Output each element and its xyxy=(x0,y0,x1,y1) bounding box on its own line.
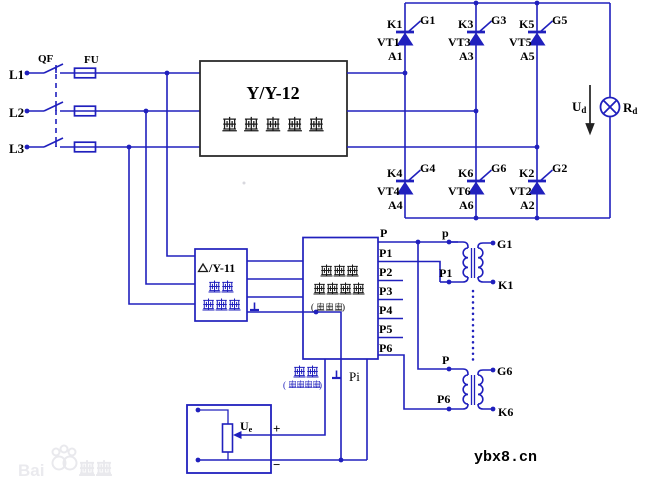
wire bridge top rail xyxy=(405,2,610,4)
svg-text:A3: A3 xyxy=(459,49,474,63)
svg-text:G2: G2 xyxy=(552,161,567,175)
wire bridge leg 3 xyxy=(536,3,538,218)
svg-text:(: ( xyxy=(283,380,286,390)
svg-text:(: ( xyxy=(311,302,314,312)
thyristor VT1 xyxy=(396,21,421,46)
svg-text:p: p xyxy=(442,226,449,240)
node tap3 xyxy=(127,145,132,150)
wire phase a to bridge xyxy=(347,72,405,74)
svg-text:VT5: VT5 xyxy=(509,35,532,49)
svg-text:K5: K5 xyxy=(519,17,534,31)
node P1 bottom TP1 xyxy=(447,280,452,285)
wire Pi vertical xyxy=(366,359,368,460)
svg-text:): ) xyxy=(342,302,345,312)
svg-text:G6: G6 xyxy=(497,364,512,378)
svg-text:): ) xyxy=(319,380,322,390)
wire stub P5 xyxy=(378,337,403,339)
wire sync out 1 xyxy=(247,260,303,262)
svg-text:K1: K1 xyxy=(387,17,402,31)
node P6 bottom TP6 xyxy=(447,407,452,412)
wire pot bottom xyxy=(227,452,229,460)
svg-text:VT6: VT6 xyxy=(448,184,471,198)
breaker QF pole 3 xyxy=(44,138,63,147)
node bottom rail leg2 xyxy=(474,216,479,221)
svg-text:−: − xyxy=(273,457,280,472)
svg-text:G4: G4 xyxy=(420,161,435,175)
svg-text:A6: A6 xyxy=(459,198,474,212)
node phase c xyxy=(535,145,540,150)
wire stub P6 xyxy=(378,355,449,409)
fuse FU1 xyxy=(75,68,96,78)
label sync hanzi xyxy=(209,281,233,292)
node P link top xyxy=(416,240,421,245)
svg-text:FU: FU xyxy=(84,54,99,66)
svg-text:+: + xyxy=(273,421,280,436)
node top rail leg2 xyxy=(474,1,479,6)
svg-text:P3: P3 xyxy=(379,284,392,298)
wire stub P3 xyxy=(378,299,403,301)
svg-text:G6: G6 xyxy=(491,161,506,175)
wire bridge leg 1 xyxy=(404,3,406,218)
label control voltage hanzi xyxy=(283,380,322,390)
wire load right rail xyxy=(609,3,611,218)
label double pulse hanzi xyxy=(321,265,358,276)
svg-text:K2: K2 xyxy=(519,166,534,180)
node minus gnd junction xyxy=(339,458,344,463)
svg-text:ybx8.cn: ybx8.cn xyxy=(474,449,537,466)
wire P1 feed bottom xyxy=(440,281,449,283)
wire sync tap 1 xyxy=(167,73,195,256)
node G6 terminal xyxy=(491,368,496,373)
wire L2 phase line xyxy=(27,110,200,112)
node K1 terminal xyxy=(491,280,496,285)
wire phase b to bridge xyxy=(347,110,476,112)
svg-text:QF: QF xyxy=(38,53,54,65)
svg-text:VT1: VT1 xyxy=(377,35,400,49)
svg-text:L2: L2 xyxy=(9,105,24,120)
svg-text:P: P xyxy=(380,226,387,240)
ground sync xyxy=(250,303,259,311)
svg-text:P6: P6 xyxy=(379,341,392,355)
wire sync tap 3 xyxy=(129,147,195,304)
wire L1 phase line xyxy=(27,72,200,74)
node L1 terminal xyxy=(25,71,30,76)
node L3 terminal xyxy=(25,145,30,150)
wire stub P4 xyxy=(378,318,403,320)
breaker QF link dashed xyxy=(55,65,57,147)
svg-text:A5: A5 xyxy=(520,49,535,63)
svg-text:K6: K6 xyxy=(458,166,473,180)
svg-text:P1: P1 xyxy=(379,246,392,260)
svg-text:G3: G3 xyxy=(491,13,506,27)
wire stub P xyxy=(378,241,458,243)
node source top xyxy=(196,408,201,413)
node source bottom xyxy=(196,458,201,463)
svg-text:P4: P4 xyxy=(379,303,392,317)
svg-text:P1: P1 xyxy=(439,266,452,280)
svg-text:K3: K3 xyxy=(458,17,473,31)
wire source top xyxy=(198,410,228,424)
artifact dot xyxy=(243,182,246,185)
node L2 terminal xyxy=(25,109,30,114)
label rectifier transformer hanzi xyxy=(223,118,323,131)
wire stub P1 xyxy=(378,262,440,283)
thyristor VT6 xyxy=(467,170,492,195)
svg-text:VT3: VT3 xyxy=(448,35,471,49)
svg-text:K4: K4 xyxy=(387,166,402,180)
svg-text:Rd: Rd xyxy=(623,100,637,116)
node tap2 xyxy=(144,109,149,114)
svg-text:Y/Y-12: Y/Y-12 xyxy=(246,83,299,103)
node bottom rail leg3 xyxy=(535,216,540,221)
fuse FU3 xyxy=(75,142,96,152)
wire bridge bottom rail xyxy=(405,217,610,219)
svg-text:/Y-11: /Y-11 xyxy=(208,261,235,275)
potentiometer Ue xyxy=(223,424,233,452)
arrow Ud xyxy=(587,85,594,133)
svg-text:A1: A1 xyxy=(388,49,403,63)
dotted continuation xyxy=(472,291,475,363)
node phase a xyxy=(403,71,408,76)
watermark baidu xyxy=(18,446,111,481)
thyristor VT5 xyxy=(528,21,553,46)
svg-text:K1: K1 xyxy=(498,278,513,292)
wire minus line xyxy=(198,459,367,461)
svg-text:P6: P6 xyxy=(437,392,450,406)
svg-text:A2: A2 xyxy=(520,198,535,212)
wiper arrow xyxy=(240,434,257,436)
wire bridge leg 2 xyxy=(475,3,477,218)
node common xyxy=(314,310,319,315)
svg-text:L1: L1 xyxy=(9,67,24,82)
thyristor VT2 xyxy=(528,170,553,195)
svg-text:G5: G5 xyxy=(552,13,567,27)
node K6 terminal xyxy=(491,407,496,412)
thyristor VT3 xyxy=(467,21,492,46)
breaker QF pole 1 xyxy=(44,64,63,73)
svg-text:VT4: VT4 xyxy=(377,184,400,198)
svg-text:P5: P5 xyxy=(379,322,392,336)
label trigger circuit hanzi xyxy=(314,283,364,294)
pulse transformer TP6 xyxy=(449,369,493,409)
wire P vertical link xyxy=(418,242,449,369)
node p top TP1 xyxy=(447,240,452,245)
label transformer hanzi xyxy=(203,299,240,310)
svg-text:G1: G1 xyxy=(420,13,435,27)
wire phase c to bridge xyxy=(347,146,537,148)
wire control plus vertical xyxy=(257,359,325,435)
svg-text:G1: G1 xyxy=(497,237,512,251)
sync transformer box xyxy=(195,249,247,321)
node phase b xyxy=(474,109,479,114)
wire sync out 2 xyxy=(247,278,303,280)
svg-text:Ud: Ud xyxy=(572,99,586,115)
fuse FU2 xyxy=(75,106,96,116)
breaker QF pole 2 xyxy=(44,102,63,111)
label phase shift hanzi xyxy=(294,366,318,377)
label common terminal hanzi xyxy=(311,302,345,312)
svg-text:VT2: VT2 xyxy=(509,184,532,198)
svg-text:A4: A4 xyxy=(388,198,403,212)
wire sync tap 2 xyxy=(146,111,195,284)
node P top TP6 xyxy=(447,367,452,372)
lamp Rd xyxy=(601,98,620,117)
transformer T1 box xyxy=(200,61,347,156)
wire sync out 3 xyxy=(247,296,303,298)
wire common line xyxy=(247,312,341,460)
pulse transformer TP1 xyxy=(449,242,493,282)
label D/Y-11 xyxy=(199,264,208,272)
node tap1 xyxy=(165,71,170,76)
trigger circuit box xyxy=(303,238,378,360)
node G1 terminal xyxy=(491,241,496,246)
svg-text:P2: P2 xyxy=(379,265,392,279)
svg-text:L3: L3 xyxy=(9,141,25,156)
ground control xyxy=(332,371,341,379)
wire stub P2 xyxy=(378,280,403,282)
node top rail leg3 xyxy=(535,1,540,6)
svg-text:Pi: Pi xyxy=(349,369,360,384)
svg-text:Bai: Bai xyxy=(18,461,44,480)
svg-text:P: P xyxy=(442,353,449,367)
thyristor VT4 xyxy=(396,170,421,195)
control source box xyxy=(187,405,271,473)
svg-text:K6: K6 xyxy=(498,405,513,419)
wire L3 phase line xyxy=(27,146,200,148)
